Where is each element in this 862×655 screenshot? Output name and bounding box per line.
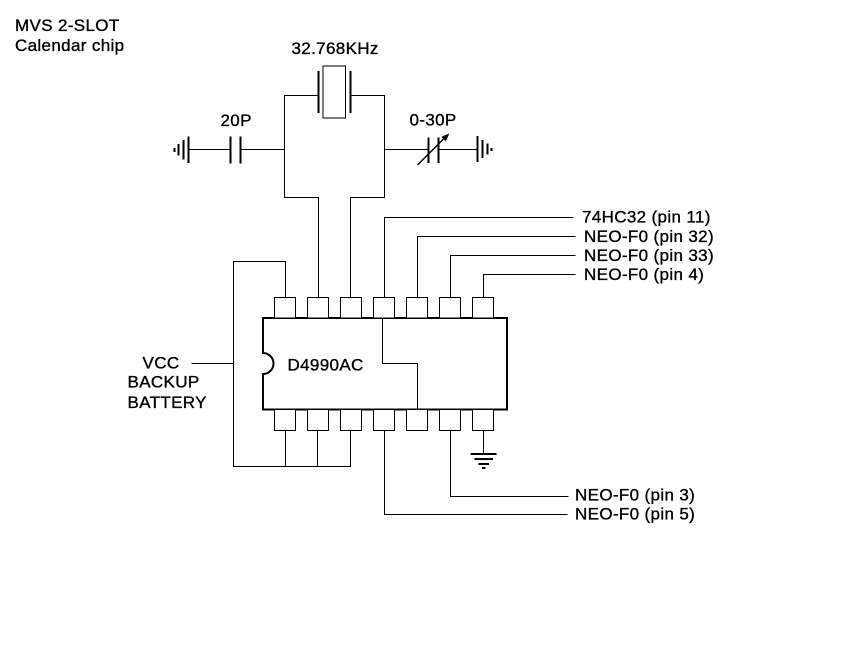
- pin 2 top box: [308, 298, 329, 319]
- wire: net to NEO-F0 pin 3: [451, 431, 569, 497]
- svg-text:NEO-F0 (pin 4): NEO-F0 (pin 4): [584, 265, 704, 284]
- pin 5 top box: [407, 298, 428, 319]
- capacitor C1 20P: [231, 137, 241, 164]
- wire: battery net loop (pin1 top / pins 1-3 bottom): [234, 262, 351, 467]
- svg-text:20P: 20P: [221, 111, 252, 130]
- svg-text:32.768KHz: 32.768KHz: [292, 39, 379, 58]
- pin 1 top box: [275, 298, 296, 319]
- pin 12 bottom box: [407, 410, 428, 431]
- svg-text:MVS 2-SLOT: MVS 2-SLOT: [15, 16, 120, 35]
- wire: C2 to ground G2: [439, 149, 478, 151]
- svg-text:NEO-F0 (pin 5): NEO-F0 (pin 5): [575, 505, 695, 524]
- wire: C1 to node X1-left: [241, 149, 285, 151]
- svg-text:NEO-F0 (pin 3): NEO-F0 (pin 3): [575, 486, 695, 505]
- variable capacitor C2 0-30P: [418, 133, 450, 165]
- wire: crystal loop right branch: [351, 96, 385, 298]
- svg-text:0-30P: 0-30P: [410, 111, 457, 130]
- svg-text:NEO-F0 (pin 33): NEO-F0 (pin 33): [584, 246, 714, 265]
- wire: net to NEO-F0 pin 33: [451, 256, 576, 298]
- wire: net to NEO-F0 pin 32: [418, 237, 576, 298]
- title: MVS 2-SLOT Calendar chip: [15, 16, 124, 55]
- ground G2 (right, rotated): [478, 136, 492, 162]
- wire: crystal loop left branch: [285, 96, 319, 298]
- pin 10 bottom box: [341, 410, 362, 431]
- ground G1 (left, rotated): [175, 137, 189, 164]
- wire: VCC to battery net: [192, 363, 234, 365]
- svg-text:BACKUP: BACKUP: [128, 373, 200, 392]
- pin 11 bottom box: [374, 410, 395, 431]
- pin 7 top box: [473, 298, 494, 319]
- svg-text:D4990AC: D4990AC: [288, 356, 364, 375]
- svg-text:VCC: VCC: [143, 354, 180, 373]
- wire: node X1-right to C2: [385, 149, 429, 151]
- svg-text:NEO-F0 (pin 32): NEO-F0 (pin 32): [584, 227, 714, 246]
- pin 8 bottom box: [275, 410, 296, 431]
- wire: ground G1 to C1: [189, 149, 231, 151]
- IC U1 body D4990AC: [263, 318, 507, 410]
- pin 13 bottom box: [440, 410, 461, 431]
- pin 9 bottom box: [308, 410, 329, 431]
- crystal X1 32.768KHz: [319, 66, 351, 118]
- svg-text:74HC32 (pin 11): 74HC32 (pin 11): [582, 208, 711, 227]
- label VCC BACKUP BATTERY: [128, 354, 207, 413]
- ground G3: [471, 454, 497, 468]
- wire: net to 74HC32 pin 11: [385, 218, 574, 298]
- wire: net to NEO-F0 pin 4: [484, 275, 576, 298]
- svg-text:Calendar chip: Calendar chip: [15, 36, 124, 55]
- pin 4 top box: [374, 298, 395, 319]
- wire: pin 14 to ground G3: [483, 431, 485, 455]
- pin 6 top box: [440, 298, 461, 319]
- svg-text:BATTERY: BATTERY: [128, 393, 207, 412]
- pin 3 top box: [341, 298, 362, 319]
- wire: net to NEO-F0 pin 5: [385, 431, 568, 515]
- pin 14 bottom box: [473, 410, 494, 431]
